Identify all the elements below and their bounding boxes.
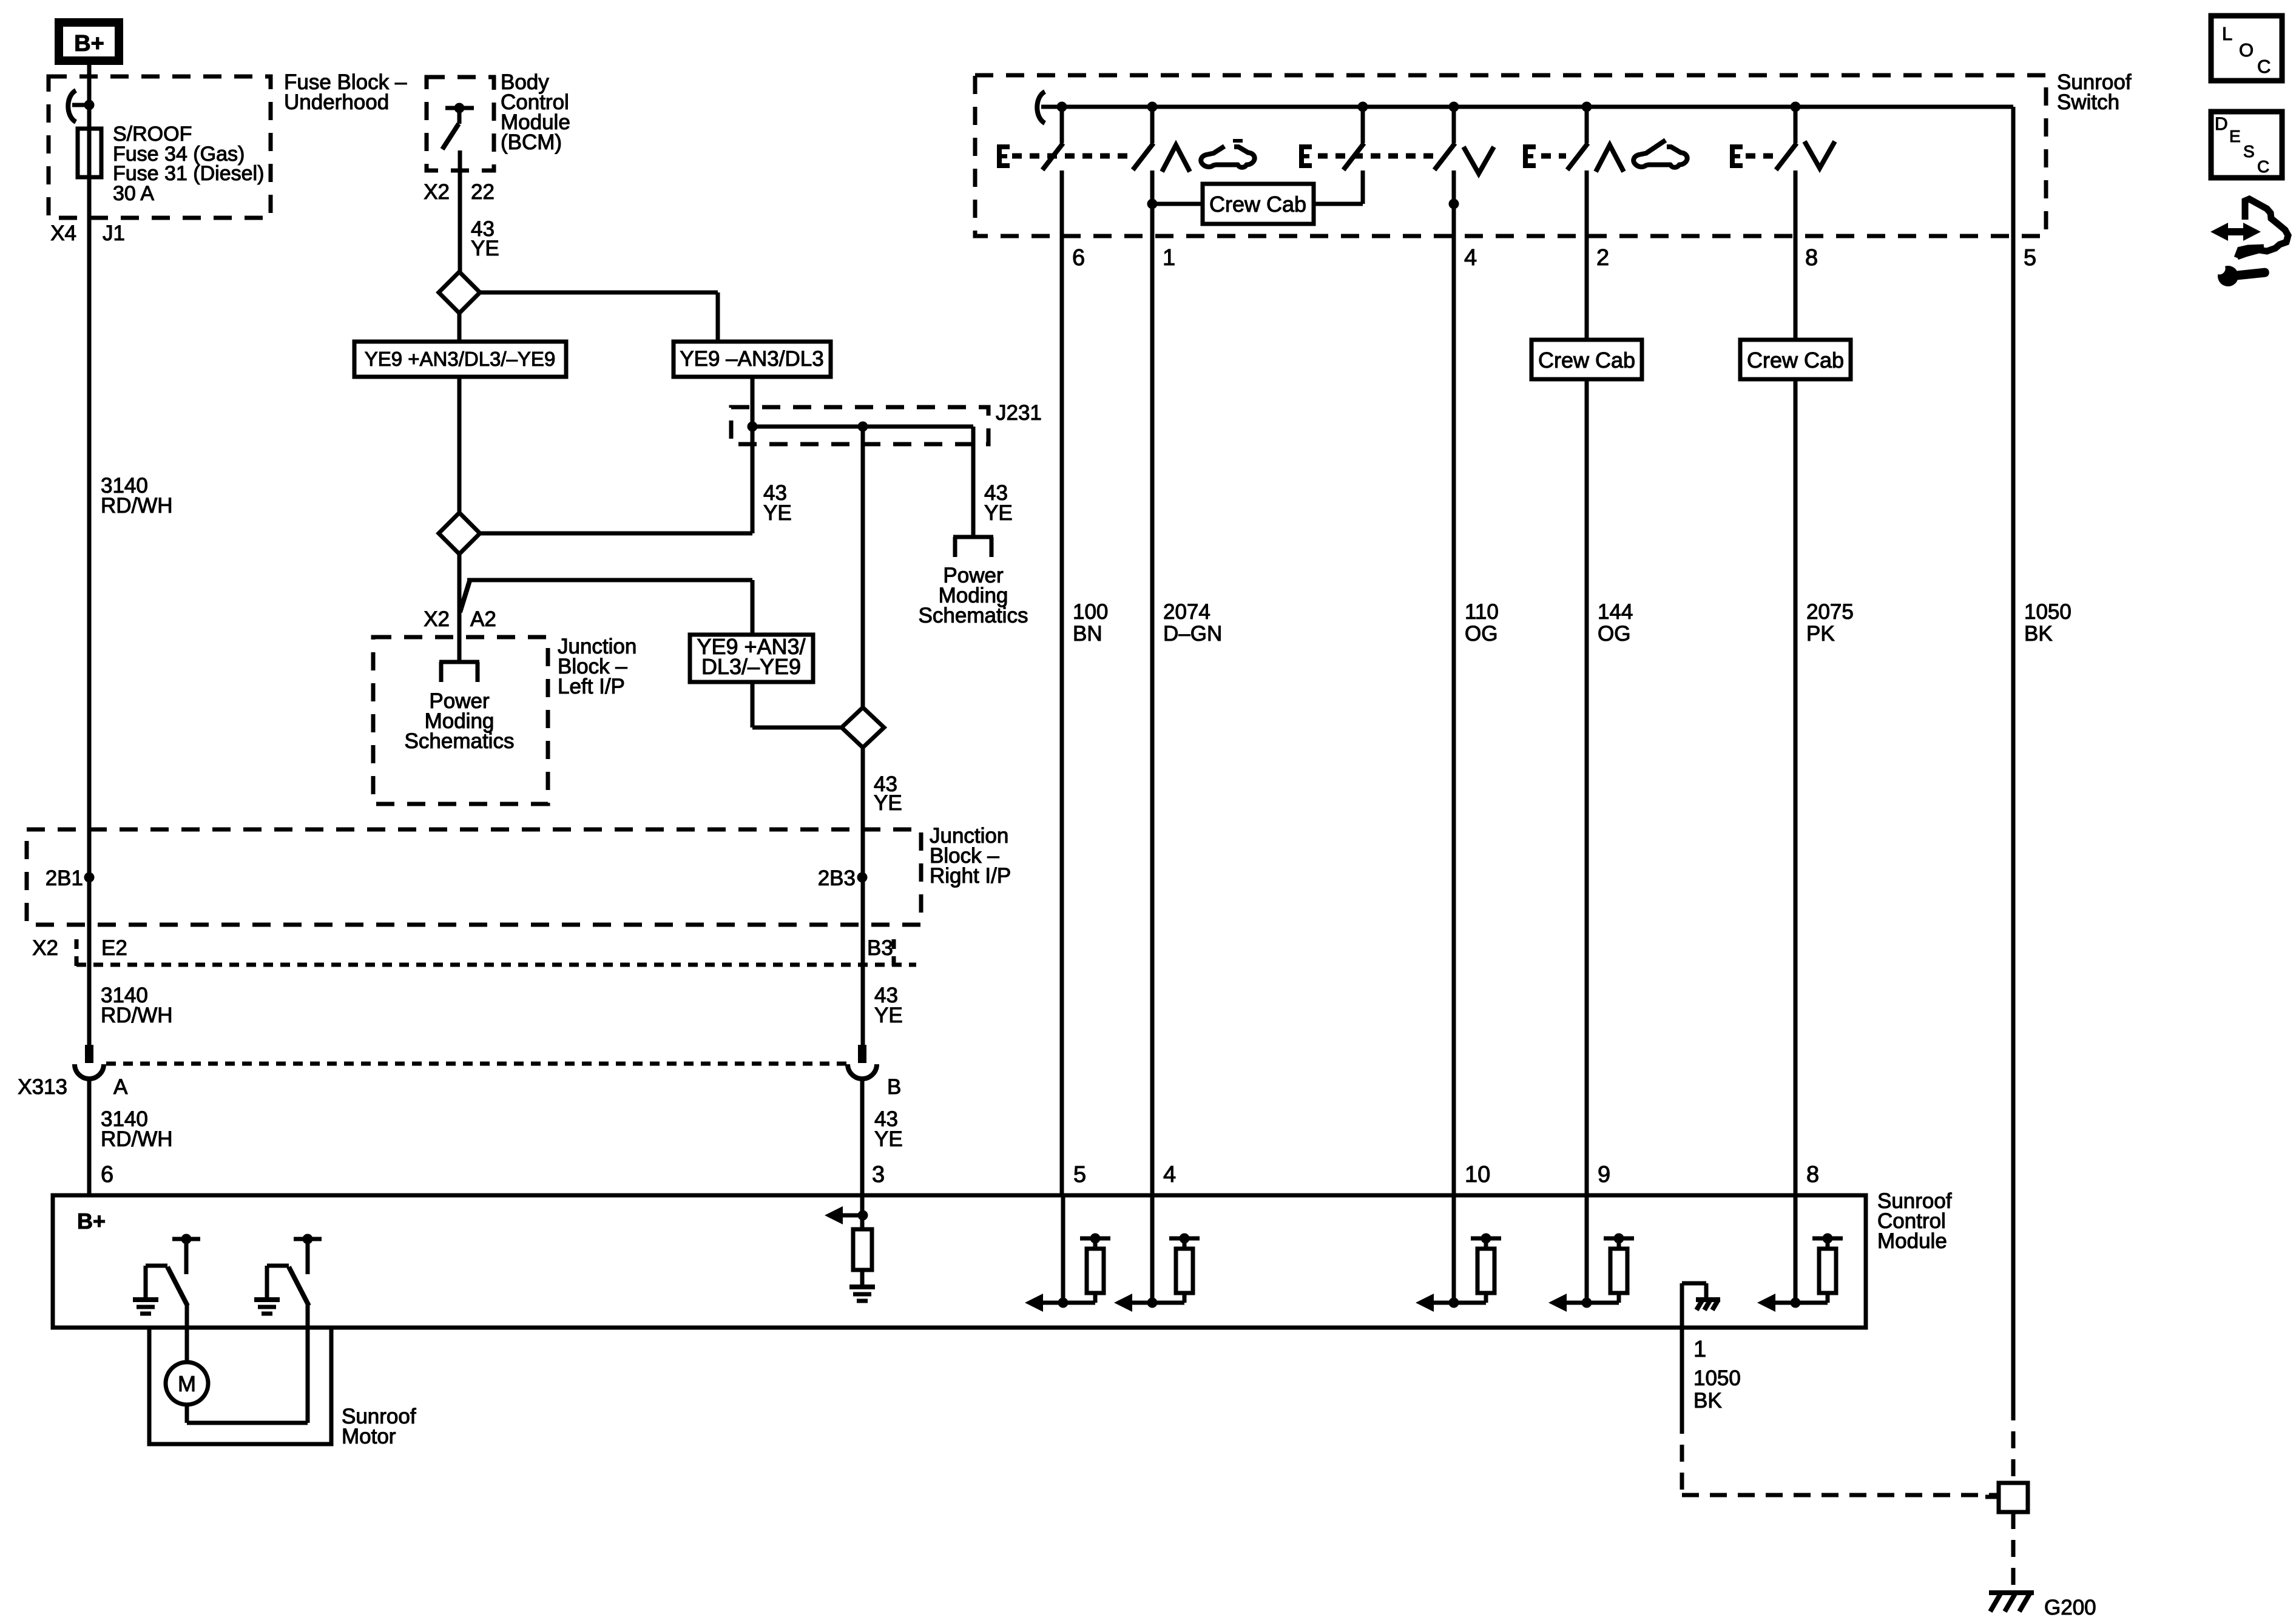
branch wire to YE9 two-line box: [467, 578, 752, 582]
wire SW3 to crew cab box: [1361, 170, 1365, 204]
adjust hand icon with double arrow: [2210, 223, 2228, 241]
splice diamond S2: [439, 513, 480, 554]
ground G200: [1989, 1590, 2034, 1595]
svg-text:OG: OG: [1465, 622, 1497, 646]
crew cab option box 1: [1203, 184, 1314, 224]
connector boundary dashed line: [76, 963, 916, 967]
sunroof motor M: [166, 1362, 208, 1405]
svg-text:YE9 +AN3/DL3/–YE9: YE9 +AN3/DL3/–YE9: [365, 348, 556, 370]
splice diamond S3: [842, 707, 884, 748]
svg-text:9: 9: [1598, 1162, 1610, 1187]
svg-text:E2: E2: [101, 936, 127, 960]
resistor pull-up at module pin x=2959: [1794, 1195, 1798, 1303]
svg-text:D–GN: D–GN: [1163, 622, 1222, 646]
svg-text:L: L: [2222, 23, 2232, 44]
svg-text:X2: X2: [424, 180, 450, 204]
svg-text:RD/WH: RD/WH: [101, 1004, 173, 1027]
svg-text:Motor: Motor: [342, 1425, 396, 1448]
signal ground relay A: [133, 1297, 158, 1302]
option box YE9 +AN3/DL3/-YE9 two-line: [690, 635, 813, 682]
svg-text:22: 22: [471, 180, 495, 204]
svg-text:Crew Cab: Crew Cab: [1209, 192, 1306, 217]
switch SW2 pin 1: [1147, 102, 1158, 112]
resistor pull-up at module pin x=2396: [1452, 1195, 1456, 1303]
in-line connector X2/A2 slash: [460, 579, 470, 612]
svg-text:10: 10: [1465, 1162, 1490, 1187]
up chevron at SW5: [1596, 145, 1624, 172]
sunroof motor housing: [149, 1328, 331, 1444]
svg-text:J231: J231: [996, 401, 1042, 425]
switch SW5 pin 2: [1582, 102, 1592, 112]
car icon tilted sunroof: [1633, 140, 1687, 167]
svg-text:1050: 1050: [1693, 1366, 1741, 1390]
svg-text:X2: X2: [424, 607, 450, 631]
junction dot fuse feed: [84, 100, 95, 110]
B+ power feed box: [59, 22, 119, 61]
svg-text:YE: YE: [763, 501, 792, 525]
svg-text:B+: B+: [74, 31, 104, 56]
svg-text:3: 3: [872, 1162, 885, 1187]
junction dot on pin 4 wire: [1449, 199, 1459, 209]
motor relay contact A: [172, 1237, 200, 1241]
crew cab option box 2: [1531, 340, 1642, 379]
node 2B1: [84, 873, 95, 883]
off-page connector to power moding schematics left: [439, 660, 479, 664]
resistor pull-up at module pin x=2615: [1585, 1195, 1589, 1303]
svg-text:5: 5: [1073, 1162, 1086, 1187]
svg-text:4: 4: [1464, 245, 1477, 271]
svg-text:BK: BK: [1693, 1389, 1722, 1413]
svg-text:1050: 1050: [2024, 600, 2071, 624]
svg-text:Right I/P: Right I/P: [930, 864, 1011, 888]
linkage dashes pin 2 switch: [1541, 154, 1566, 159]
wire bus elbow to pin 5: [2011, 107, 2016, 1403]
wire box to J231 splice pack: [751, 377, 755, 427]
switch SW6 pin 8: [1791, 102, 1801, 112]
J231 internal bus wire: [752, 425, 973, 429]
svg-text:2074: 2074: [1163, 600, 1210, 624]
sunroof control module box: [53, 1195, 1866, 1328]
in-line connector square to G200: [2011, 1403, 2016, 1483]
down chevron at SW6: [1805, 141, 1835, 168]
wire J231 down-left branch: [751, 427, 755, 533]
svg-text:X313: X313: [18, 1075, 67, 1099]
svg-text:Schematics: Schematics: [919, 604, 1028, 627]
svg-text:YE: YE: [471, 237, 499, 260]
wire to fuse: [87, 105, 92, 129]
wire to splice diamond S2: [480, 532, 752, 536]
sunroof switch dashed box: [975, 75, 2046, 236]
svg-text:RD/WH: RD/WH: [101, 1127, 173, 1151]
wire SW5 to module pin 9: [1585, 170, 1589, 340]
svg-text:110: 110: [1465, 600, 1499, 624]
svg-text:C: C: [2257, 56, 2271, 77]
svg-text:D: D: [2215, 114, 2228, 134]
svg-text:B+: B+: [77, 1209, 106, 1234]
svg-text:S: S: [2243, 142, 2255, 161]
svg-text:OG: OG: [1598, 622, 1630, 646]
svg-text:6: 6: [1072, 245, 1085, 271]
svg-text:2B3: 2B3: [818, 866, 856, 890]
wire diamond S1 to YE9 box: [458, 313, 462, 342]
signal ground relay B: [254, 1297, 280, 1302]
wire SW6 to module pin 8: [1794, 170, 1798, 340]
LOC legend box: [2211, 16, 2282, 81]
svg-text:PK: PK: [1806, 622, 1835, 646]
E actuator symbol pair 2: [1299, 144, 1304, 168]
svg-text:1: 1: [1163, 245, 1175, 271]
svg-text:8: 8: [1806, 1162, 1819, 1187]
wire relay A to motor: [185, 1305, 189, 1363]
svg-text:A2: A2: [470, 607, 496, 631]
connector X313 boundary dashed line: [106, 1062, 846, 1066]
switch SW4 pin 4: [1449, 102, 1459, 112]
fuse S/ROOF 30A: [78, 129, 101, 177]
E actuator symbol pin 8 switch: [1730, 144, 1735, 168]
svg-text:Crew Cab: Crew Cab: [1747, 348, 1844, 373]
signal arrow at module pin x=2959: [1757, 1294, 1775, 1312]
svg-text:E: E: [2229, 127, 2241, 146]
splice diamond S1: [439, 272, 480, 313]
svg-text:Module: Module: [1877, 1229, 1947, 1253]
svg-text:Underhood: Underhood: [284, 90, 389, 114]
wire X313-B to module pin 3: [860, 1079, 865, 1195]
wire X313-A to module pin 6: [87, 1079, 92, 1195]
svg-text:O: O: [2239, 39, 2254, 61]
wire J231 down to diamond S3: [861, 427, 865, 707]
wire B+ to fuse block: [87, 65, 92, 105]
E actuator symbol pin 2 switch: [1523, 144, 1528, 168]
option box YE9 +AN3/DL3/-YE9: [354, 342, 566, 377]
svg-text:YE: YE: [874, 1127, 903, 1151]
off-page connector to power moding schematics: [953, 535, 993, 539]
switch internal bus: [1041, 105, 2013, 109]
node 2B3: [857, 873, 868, 883]
svg-text:YE: YE: [874, 1004, 903, 1027]
car icon open sunroof: [1233, 139, 1243, 143]
junction block - right I/P dashed box: [27, 829, 921, 925]
signal arrow at module pin x=1752: [1025, 1294, 1043, 1312]
branch wire to YE9 -AN3/DL3 box: [480, 291, 718, 295]
motor relay contact B: [294, 1237, 322, 1241]
svg-text:RD/WH: RD/WH: [101, 494, 173, 518]
svg-text:(BCM): (BCM): [501, 130, 562, 154]
wire fuse to X4/J1: [87, 177, 92, 1045]
linkage dashes pair 1: [1012, 154, 1132, 159]
switch SW3 crew cab: [1358, 102, 1368, 112]
svg-text:BK: BK: [2024, 622, 2053, 646]
in-line connector X313 pin B: [858, 1045, 866, 1063]
svg-text:8: 8: [1805, 245, 1818, 271]
wire SW4 to module pin 10: [1452, 170, 1456, 1195]
svg-text:1: 1: [1693, 1337, 1706, 1362]
signal arrow at module pin x=1899: [1114, 1294, 1132, 1312]
svg-text:A: A: [113, 1075, 128, 1099]
svg-text:C: C: [2257, 157, 2269, 176]
wire SW2 to module pin 4: [1150, 170, 1155, 1195]
svg-text:YE: YE: [984, 501, 1013, 525]
fuse block - underhood dashed box: [49, 76, 271, 218]
wire pin1 to crew cab box: [1152, 202, 1203, 206]
BCM internal switch: [445, 106, 474, 110]
svg-text:YE: YE: [874, 791, 902, 815]
svg-text:Left I/P: Left I/P: [558, 675, 625, 698]
svg-text:YE9 –AN3/DL3: YE9 –AN3/DL3: [680, 347, 823, 371]
svg-text:M: M: [178, 1371, 196, 1396]
wire BCM output X2/22: [458, 150, 462, 272]
svg-text:DL3/–YE9: DL3/–YE9: [701, 654, 801, 679]
svg-text:144: 144: [1598, 600, 1633, 624]
svg-text:G200: G200: [2044, 1596, 2096, 1617]
svg-text:X2: X2: [32, 936, 58, 960]
junction block - left I/P dashed box: [373, 637, 548, 804]
signal arrow at module pin x=2396: [1416, 1294, 1434, 1312]
svg-text:30 A: 30 A: [113, 182, 154, 205]
wire relay B to motor return: [306, 1305, 310, 1423]
body control module BCM dashed box: [427, 77, 494, 170]
crew cab option box 3: [1740, 340, 1851, 379]
linkage dashes pin 8 switch: [1746, 154, 1774, 159]
svg-text:Crew Cab: Crew Cab: [1538, 348, 1635, 373]
svg-text:Schematics: Schematics: [405, 729, 515, 753]
J231 right branch to power moding: [971, 427, 976, 537]
module pin 3 input: arrow, resistor, ground: [860, 1195, 865, 1229]
up chevron at SW2: [1162, 145, 1190, 172]
svg-text:5: 5: [2024, 245, 2036, 271]
svg-text:X4: X4: [50, 221, 76, 245]
svg-text:2: 2: [1596, 245, 1609, 271]
svg-text:J1: J1: [103, 221, 125, 245]
svg-text:2B1: 2B1: [46, 866, 83, 890]
wire YE9 box down to diamond S2: [458, 377, 462, 513]
down chevron at SW4: [1464, 147, 1494, 174]
J231 splice pack dashed box: [731, 407, 988, 444]
module internal chassis ground pin 1: [1680, 1283, 1684, 1328]
linkage dashes pair 2: [1318, 154, 1433, 159]
female connector hook at switch feed: [1037, 92, 1045, 123]
wrench icon: [2209, 254, 2270, 288]
svg-text:BN: BN: [1073, 622, 1102, 646]
DESC legend box: [2211, 112, 2282, 178]
wire SW1 to module pin 5: [1060, 170, 1064, 1195]
motor return wire: [185, 1405, 189, 1423]
E actuator symbol pair 1: [997, 144, 1002, 168]
female connector hook at fuse block feed: [68, 90, 76, 122]
wire diamond S3 down through junction block right: [861, 748, 865, 1045]
wire two-line box to diamond S3: [751, 682, 755, 727]
in-line connector X313 pin A: [85, 1045, 93, 1063]
svg-text:4: 4: [1163, 1162, 1176, 1187]
wire diamond S2 down to junction block left: [458, 554, 462, 662]
option box YE9 -AN3/DL3: [674, 342, 831, 377]
junction dot crew cab tap pin 1: [1147, 199, 1158, 209]
svg-text:100: 100: [1073, 600, 1108, 624]
svg-text:Switch: Switch: [2057, 90, 2119, 114]
switch SW1 pin 6: [1057, 102, 1067, 112]
resistor pull-up at module pin x=1752: [1061, 1195, 1065, 1303]
svg-text:B: B: [887, 1075, 901, 1099]
resistor pull-up at module pin x=1899: [1150, 1195, 1155, 1303]
signal arrow at module pin x=2615: [1548, 1294, 1567, 1312]
svg-text:6: 6: [101, 1162, 113, 1187]
svg-text:2075: 2075: [1806, 600, 1854, 624]
svg-text:B3: B3: [867, 936, 893, 960]
